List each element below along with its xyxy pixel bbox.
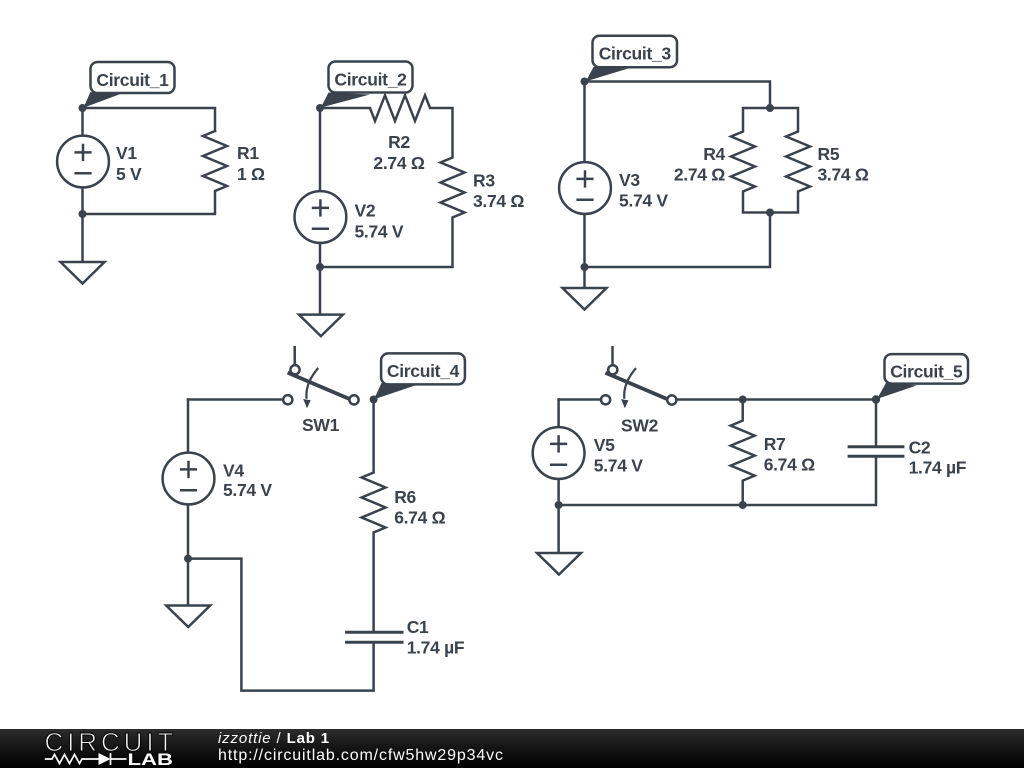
svg-text:Circuit_5: Circuit_5 [890, 362, 963, 382]
svg-text:Circuit_2: Circuit_2 [334, 69, 407, 89]
svg-text:3.74 Ω: 3.74 Ω [473, 191, 524, 211]
svg-text:3.74 Ω: 3.74 Ω [818, 165, 869, 185]
svg-text:1.74 µF: 1.74 µF [407, 638, 465, 658]
svg-text:1 Ω: 1 Ω [237, 164, 265, 184]
svg-text:SW1: SW1 [302, 415, 340, 435]
svg-text:5 V: 5 V [116, 164, 142, 184]
svg-text:5.74 V: 5.74 V [594, 456, 643, 476]
svg-text:C1: C1 [407, 617, 429, 637]
svg-text:V3: V3 [619, 170, 640, 190]
svg-text:5.74 V: 5.74 V [619, 191, 668, 211]
svg-text:R5: R5 [818, 144, 840, 164]
svg-text:R6: R6 [394, 487, 416, 507]
svg-text:1.74 µF: 1.74 µF [909, 458, 967, 478]
svg-text:SW2: SW2 [621, 415, 659, 435]
svg-text:LAB: LAB [128, 750, 174, 768]
svg-text:2.74 Ω: 2.74 Ω [373, 153, 424, 173]
svg-text:R1: R1 [237, 143, 259, 163]
svg-text:V5: V5 [594, 435, 615, 455]
svg-text:5.74 V: 5.74 V [355, 222, 404, 242]
svg-text:R4: R4 [703, 144, 725, 164]
svg-text:5.74 V: 5.74 V [223, 480, 272, 500]
svg-text:R2: R2 [388, 132, 410, 152]
svg-text:V1: V1 [116, 143, 137, 163]
svg-text:R3: R3 [473, 171, 495, 191]
svg-text:2.74 Ω: 2.74 Ω [674, 165, 725, 185]
svg-text:R7: R7 [764, 434, 786, 454]
svg-text:6.74 Ω: 6.74 Ω [764, 455, 815, 475]
svg-text:Circuit_1: Circuit_1 [96, 70, 169, 90]
svg-text:Circuit_3: Circuit_3 [599, 43, 672, 63]
svg-text:V2: V2 [355, 201, 376, 221]
svg-text:6.74 Ω: 6.74 Ω [394, 508, 445, 528]
svg-text:C2: C2 [909, 438, 931, 458]
svg-text:Circuit_4: Circuit_4 [387, 361, 460, 381]
svg-text:V4: V4 [223, 460, 244, 480]
